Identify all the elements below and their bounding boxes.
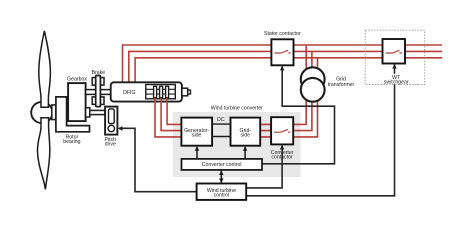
DFIG brush 1 xyxy=(154,86,157,97)
wire grid-side to transformer A xyxy=(260,123,307,125)
WT switchgear breaker box xyxy=(383,39,406,64)
wire transformer drop A xyxy=(305,45,307,124)
brake caliper top-right xyxy=(100,78,104,86)
svg-text:side: side xyxy=(241,133,251,139)
stator contactor box xyxy=(271,39,293,65)
wire grid-side to transformer C xyxy=(260,136,318,138)
svg-text:switchgear: switchgear xyxy=(384,79,409,85)
arrowhead into converter contactor xyxy=(280,145,284,150)
svg-text:DC: DC xyxy=(217,117,225,123)
arrowhead into stator contactor xyxy=(280,66,284,71)
main shaft flange xyxy=(52,105,56,120)
svg-text:bearing: bearing xyxy=(63,139,80,145)
svg-text:Gearbox: Gearbox xyxy=(67,77,87,83)
low shaft to pitch drive xyxy=(90,110,105,114)
stator contactor switch symbol xyxy=(274,50,290,53)
wire converter control to grid-side xyxy=(244,147,246,159)
wire wind turbine control to pitch drive xyxy=(119,128,197,191)
arrowhead into grid-side xyxy=(243,146,247,151)
converter contactor switch symbol xyxy=(274,129,290,132)
wire wind turbine control to converter contactor xyxy=(246,146,282,188)
wire rotor phase C xyxy=(167,98,181,125)
svg-text:contactor: contactor xyxy=(271,155,293,161)
wire stator phase C riser xyxy=(134,57,136,82)
pitch drive piston xyxy=(109,109,115,124)
connector block to gearbox xyxy=(66,107,69,120)
blade upper xyxy=(39,31,51,107)
wire converter control to wind turbine control xyxy=(220,170,222,183)
arrowhead into pitch drive xyxy=(118,126,123,130)
wire stator phase A riser xyxy=(122,44,124,82)
brake caliper bottom-right xyxy=(100,97,104,105)
high speed shaft xyxy=(86,90,112,95)
blade lower xyxy=(37,118,49,190)
wire grid-side to transformer B xyxy=(260,130,312,132)
wire stator phase B riser xyxy=(128,51,130,83)
svg-text:DFIG: DFIG xyxy=(123,90,135,96)
DFIG slip ring rails xyxy=(146,89,176,94)
brake caliper top-left xyxy=(92,78,96,86)
svg-text:Wind turbine converter: Wind turbine converter xyxy=(211,105,263,111)
arrowhead down into wind turbine control xyxy=(219,178,223,183)
wire converter control to generator-side xyxy=(196,147,198,159)
wire rotor phase B xyxy=(161,98,181,131)
pitch drive motor circle xyxy=(108,125,114,131)
wind turbine control box xyxy=(197,184,247,200)
brake caliper bottom-left xyxy=(92,97,96,105)
pitch drive box xyxy=(105,107,117,135)
converter control box xyxy=(182,159,263,170)
svg-text:control: control xyxy=(214,193,230,199)
transformer T1 upper winding xyxy=(301,67,325,91)
DFIG shaft end cap xyxy=(188,90,191,94)
svg-text:side: side xyxy=(192,133,202,139)
wire red bus L3 xyxy=(135,57,442,59)
generator DFIG body xyxy=(111,82,182,101)
wire red bus L1 xyxy=(123,44,443,46)
DFIG brush 2 xyxy=(160,86,163,97)
wire transformer drop C xyxy=(317,58,319,137)
wire transformer drop B xyxy=(311,51,313,130)
transformer T1 lower winding xyxy=(301,78,325,102)
brake disc xyxy=(96,76,101,107)
DFIG brush 3 xyxy=(166,86,169,97)
converter contactor box xyxy=(271,117,293,144)
generator-side converter box xyxy=(181,118,212,146)
DC link lines xyxy=(212,124,230,136)
svg-text:Stator contactor: Stator contactor xyxy=(264,31,301,37)
wind turbine converter shaded area xyxy=(173,112,301,177)
wire converter control to stator contactor xyxy=(262,67,335,164)
grid-side converter box xyxy=(231,118,261,146)
WT switchgear dashed enclosure xyxy=(365,30,425,84)
svg-text:Converter control: Converter control xyxy=(202,162,242,168)
svg-text:drive: drive xyxy=(105,142,116,148)
svg-text:Brake: Brake xyxy=(92,70,106,76)
DFIG slip ring box xyxy=(146,85,176,99)
arrowhead up into converter control xyxy=(219,170,223,175)
wire rotor phase A xyxy=(155,98,181,137)
DFIG shaft end stub xyxy=(182,88,188,96)
wire wind turbine control to WT switchgear xyxy=(246,65,394,196)
gearbox xyxy=(68,83,86,121)
arrowhead into WT switchgear xyxy=(392,64,396,69)
rotor bearing pedestal xyxy=(56,97,90,132)
svg-text:transformer: transformer xyxy=(328,82,355,88)
wire red bus L2 xyxy=(129,50,442,52)
rotor hub xyxy=(31,102,52,123)
gearbox low-speed stub xyxy=(86,108,90,117)
arrowhead into generator-side xyxy=(195,146,199,151)
WT switchgear switch symbol xyxy=(386,50,402,53)
label white patch under WT switchgear text xyxy=(385,74,406,84)
